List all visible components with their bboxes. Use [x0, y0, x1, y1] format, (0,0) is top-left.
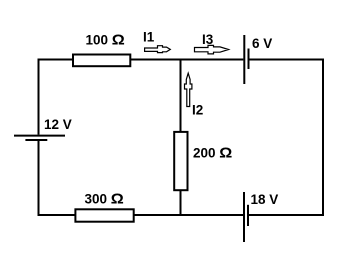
svg-text:200 Ω: 200 Ω	[193, 145, 232, 162]
svg-text:I1: I1	[143, 30, 155, 45]
resistor 100 ohm	[73, 55, 130, 67]
wire bottom right segment	[249, 214, 324, 216]
wire bottom left segment	[38, 214, 244, 216]
current arrow I1	[145, 46, 171, 53]
svg-text:18 V: 18 V	[251, 192, 279, 207]
svg-text:100 Ω: 100 Ω	[86, 32, 125, 49]
wire top right segment	[250, 59, 325, 61]
wire right side	[322, 59, 324, 217]
svg-text:6 V: 6 V	[252, 36, 272, 51]
wire left lower segment	[38, 141, 40, 216]
current arrow I3	[195, 45, 229, 54]
wire top left segment	[38, 59, 244, 61]
current arrow I2	[185, 73, 192, 106]
resistor 300 ohm	[75, 209, 133, 221]
svg-text:300 Ω: 300 Ω	[85, 191, 124, 208]
svg-text:I3: I3	[202, 32, 214, 47]
battery 6V	[244, 35, 248, 84]
svg-text:12 V: 12 V	[44, 117, 72, 132]
resistor 200 ohm	[174, 132, 187, 190]
battery 18V	[244, 192, 248, 242]
wire left upper segment	[38, 59, 40, 135]
wire middle branch	[180, 59, 182, 216]
battery 12V	[14, 136, 65, 140]
svg-text:I2: I2	[192, 103, 203, 118]
